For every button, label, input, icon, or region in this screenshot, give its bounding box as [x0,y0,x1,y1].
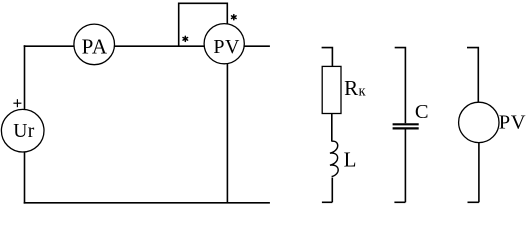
plus polarity mark [13,99,21,107]
inductor L [330,141,338,176]
asterisk at loop left vertical [183,36,188,41]
node: bottom terminal of R-L branch [322,201,332,203]
node: bottom terminal of C branch [394,201,405,203]
wire: left vertical from Ur down to bottom rail [24,152,26,204]
svg-text:PV: PV [213,36,240,58]
svg-text:PV: PV [499,111,526,133]
wire: PV branch circle to bottom terminal [478,143,480,203]
ammeter PA [74,24,115,65]
wire: resistor to inductor [331,114,333,142]
resistor Rk [322,66,341,113]
node: top terminal of R-L branch [322,48,333,67]
svg-text:PA: PA [82,34,108,58]
wire: top horizontal from left corner to ammeter PA [24,45,74,47]
wire: right stub from PV [244,45,270,47]
wire: bottom rail [24,202,270,204]
source Ur [1,109,44,152]
wire: capacitor to bottom terminal [404,129,406,202]
svg-text:C: C [415,101,429,123]
asterisk at PV top right [232,15,237,20]
svg-text:L: L [344,148,357,172]
node: top terminal of PV branch [467,48,478,103]
wire: wattmeter current-coil loop above PV [179,3,228,47]
node: bottom terminal of PV branch [468,201,479,203]
wire: vertical from PV down to bottom rail [226,64,228,203]
capacitor C [393,124,419,128]
svg-text:R: R [344,76,358,100]
voltmeter PV (wattmeter) [204,24,244,64]
svg-text:к: к [359,83,367,99]
wire: inductor to bottom terminal [331,178,333,203]
node: top terminal of C branch [395,48,406,124]
voltmeter PV (branch) [459,102,526,142]
wire: from PA to PV [114,45,205,47]
label Rk [344,76,366,100]
wire: left vertical from top corner down to source Ur [24,45,26,110]
svg-text:Ur: Ur [13,121,35,142]
